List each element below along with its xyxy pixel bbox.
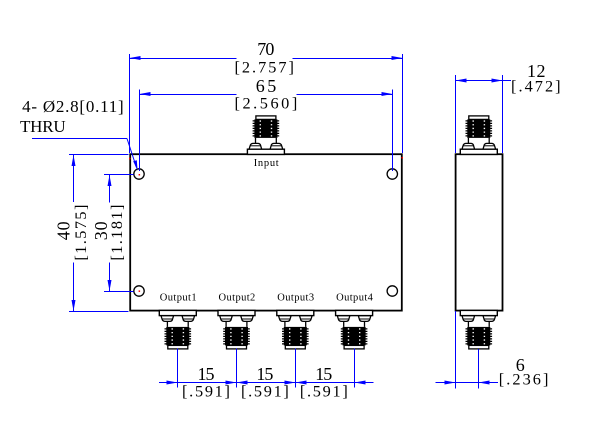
svg-text:[1.575]: [1.575] (71, 205, 90, 261)
leader horizontal line (32, 138, 127, 140)
dim65 line (140, 94, 237, 96)
dim40 extension line top (69, 154, 129, 156)
CAD marker dot a (129, 158, 131, 160)
hole top-right (387, 169, 397, 179)
svg-text:[2.757]: [2.757] (235, 57, 294, 76)
dim30 extension line top (104, 174, 134, 176)
dim6 extension line left (455, 311, 457, 389)
svg-text:[.236]: [.236] (499, 370, 549, 389)
hole bottom-right (387, 286, 397, 296)
CAD marker dot c (139, 174, 141, 176)
CAD marker dot d (139, 290, 141, 292)
svg-text:[.591]: [.591] (182, 382, 230, 401)
svg-text:[.591]: [.591] (300, 382, 348, 401)
dim65 extension line right (392, 90, 394, 171)
input connector (247, 116, 284, 155)
svg-text:[.472]: [.472] (511, 77, 561, 96)
dim65 extension line left (139, 90, 141, 171)
svg-text:4- Ø2.8[0.11]: 4- Ø2.8[0.11] (22, 97, 124, 116)
dim70 line (130, 58, 237, 60)
leader diagonal line (127, 139, 137, 168)
svg-text:Output2: Output2 (219, 293, 256, 304)
svg-text:Output3: Output3 (277, 293, 314, 304)
hole top-left (134, 169, 144, 179)
output connector 3 (277, 310, 314, 349)
side view body (456, 154, 503, 310)
svg-text:Output1: Output1 (160, 293, 197, 304)
dim12 extension line right (502, 75, 504, 153)
leader arrowhead (133, 160, 137, 171)
output connector 1 (159, 310, 196, 349)
dim30 line (109, 175, 111, 203)
output connector 4 (336, 310, 373, 349)
svg-text:[.591]: [.591] (241, 382, 289, 401)
svg-text:70: 70 (257, 39, 274, 59)
dim12 line (456, 80, 512, 82)
dim15 extension line 4 (354, 349, 356, 388)
dim30 arrows (108, 175, 112, 186)
dim15 extension line 2 (236, 349, 238, 388)
dim70 arrows (130, 56, 141, 60)
side input connector (460, 116, 497, 155)
dim40 line (73, 155, 75, 203)
dim12 extension line left (455, 75, 457, 153)
svg-text:THRU: THRU (20, 117, 66, 136)
dim70 extension line left (129, 54, 131, 153)
hole bottom-left (134, 286, 144, 296)
CAD marker dot b (402, 157, 404, 159)
dim65 arrows (140, 92, 151, 96)
dim40 arrows (72, 155, 76, 166)
dim15 line (159, 382, 374, 384)
dim15 extension line 1 (177, 349, 179, 388)
dim6 extension line right (478, 349, 480, 389)
dim6 line (436, 382, 498, 384)
svg-text:[1.181]: [1.181] (107, 205, 126, 261)
side output connector (460, 310, 497, 349)
dim40 extension line bottom (69, 311, 129, 313)
svg-text:Output4: Output4 (336, 293, 374, 304)
svg-text:Input: Input (254, 158, 279, 169)
dim15 arrows (167, 381, 178, 385)
dim15 extension line 3 (295, 349, 297, 388)
front view body (130, 154, 402, 310)
dim6 arrows (445, 381, 456, 385)
dim12 arrows (456, 79, 467, 83)
dim30 extension line bottom (104, 291, 134, 293)
dim70 extension line right (402, 54, 404, 153)
svg-text:[2.560]: [2.560] (235, 94, 298, 113)
output connector 2 (218, 310, 255, 349)
